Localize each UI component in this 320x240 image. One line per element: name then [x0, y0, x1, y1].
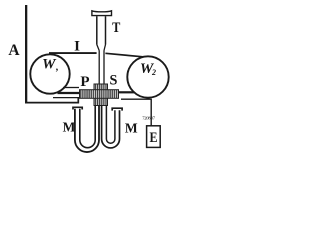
svg-text:W: W — [42, 57, 57, 73]
svg-text:M: M — [63, 119, 76, 134]
svg-text:E: E — [149, 129, 157, 146]
svg-text:7208'07: 7208'07 — [142, 115, 156, 120]
svg-text:A: A — [8, 42, 20, 59]
svg-text:2: 2 — [151, 68, 156, 77]
svg-text:T: T — [112, 19, 120, 35]
svg-text:M: M — [125, 120, 138, 135]
svg-text:P: P — [80, 74, 89, 90]
svg-text:I: I — [74, 38, 80, 54]
svg-text:S: S — [110, 73, 118, 89]
svg-text:,: , — [55, 62, 59, 73]
